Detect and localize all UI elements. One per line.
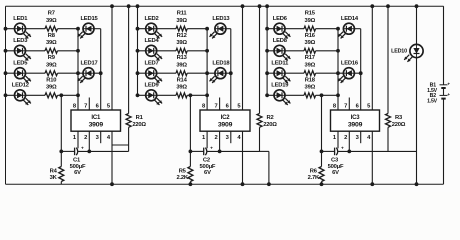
svg-text:R15: R15 (305, 11, 316, 17)
svg-text:LED17: LED17 (80, 60, 97, 66)
svg-text:2.2K: 2.2K (176, 175, 188, 181)
svg-text:IC1: IC1 (91, 115, 101, 121)
svg-text:7: 7 (344, 104, 347, 110)
svg-text:IC2: IC2 (221, 115, 231, 121)
svg-text:LED2: LED2 (144, 16, 158, 22)
svg-text:+: + (81, 146, 84, 151)
svg-text:R5: R5 (179, 169, 187, 175)
svg-text:+: + (341, 146, 344, 151)
svg-text:3909: 3909 (89, 122, 104, 129)
svg-text:2: 2 (84, 135, 87, 141)
svg-text:LED5: LED5 (13, 60, 28, 66)
svg-text:R11: R11 (177, 11, 188, 17)
svg-text:IC3: IC3 (351, 115, 361, 121)
svg-text:LED4: LED4 (144, 38, 159, 44)
svg-text:R9: R9 (48, 55, 56, 61)
svg-text:LED8: LED8 (273, 38, 288, 44)
svg-text:39Ω: 39Ω (176, 85, 187, 91)
svg-text:220Ω: 220Ω (263, 122, 277, 128)
svg-text:R18: R18 (305, 77, 316, 83)
svg-text:7: 7 (84, 104, 87, 110)
svg-text:LED15: LED15 (80, 16, 98, 22)
svg-text:500μF: 500μF (328, 164, 344, 170)
svg-text:6V: 6V (204, 170, 211, 176)
svg-text:39Ω: 39Ω (46, 40, 57, 46)
svg-text:2: 2 (214, 135, 217, 141)
svg-text:7: 7 (214, 104, 217, 110)
svg-text:LED13: LED13 (212, 16, 230, 22)
svg-text:R8: R8 (48, 33, 56, 39)
svg-text:3909: 3909 (218, 122, 233, 129)
svg-text:500μF: 500μF (200, 164, 216, 170)
svg-text:LED10: LED10 (391, 48, 407, 54)
svg-text:3K: 3K (50, 175, 58, 181)
svg-text:+: + (210, 146, 213, 151)
svg-text:LED6: LED6 (273, 16, 288, 22)
svg-text:C1: C1 (73, 157, 81, 163)
svg-text:39Ω: 39Ω (46, 85, 57, 91)
svg-text:39Ω: 39Ω (305, 40, 316, 46)
svg-text:39Ω: 39Ω (305, 85, 316, 91)
svg-text:39Ω: 39Ω (176, 62, 187, 68)
svg-text:6V: 6V (332, 170, 339, 176)
svg-text:R14: R14 (177, 77, 188, 83)
svg-text:2.7K: 2.7K (308, 175, 320, 181)
svg-text:C2: C2 (203, 157, 210, 163)
svg-text:6V: 6V (74, 170, 81, 176)
svg-text:R13: R13 (177, 55, 188, 61)
svg-text:220Ω: 220Ω (392, 122, 406, 128)
svg-text:2: 2 (344, 135, 347, 141)
svg-text:LED11: LED11 (271, 60, 289, 66)
svg-text:R4: R4 (50, 169, 58, 175)
svg-text:39Ω: 39Ω (46, 18, 57, 24)
svg-text:LED1: LED1 (13, 16, 28, 22)
svg-text:220Ω: 220Ω (132, 122, 146, 128)
svg-text:R10: R10 (46, 77, 56, 83)
svg-text:39Ω: 39Ω (305, 62, 316, 68)
svg-text:R7: R7 (48, 11, 55, 17)
svg-text:R1: R1 (136, 115, 144, 121)
svg-text:LED7: LED7 (144, 60, 158, 66)
svg-text:R12: R12 (177, 33, 187, 39)
svg-text:LED18: LED18 (212, 60, 230, 66)
svg-text:39Ω: 39Ω (176, 40, 187, 46)
svg-text:R2: R2 (266, 115, 273, 121)
svg-text:LED16: LED16 (341, 60, 359, 66)
svg-text:1.5V: 1.5V (427, 98, 438, 104)
svg-text:LED3: LED3 (13, 38, 28, 44)
svg-text:R3: R3 (395, 115, 403, 121)
svg-text:C3: C3 (331, 157, 339, 163)
svg-text:LED12: LED12 (12, 83, 29, 89)
svg-text:R16: R16 (305, 33, 316, 39)
svg-text:LED19: LED19 (271, 83, 289, 89)
svg-text:LED14: LED14 (341, 16, 359, 22)
svg-text:500μF: 500μF (70, 164, 86, 170)
svg-text:39Ω: 39Ω (176, 18, 187, 24)
svg-text:LED9: LED9 (144, 83, 159, 89)
svg-text:39Ω: 39Ω (46, 62, 57, 68)
svg-text:R6: R6 (310, 169, 318, 175)
svg-text:R17: R17 (305, 55, 315, 61)
svg-text:3909: 3909 (348, 122, 363, 129)
svg-text:39Ω: 39Ω (305, 18, 316, 24)
